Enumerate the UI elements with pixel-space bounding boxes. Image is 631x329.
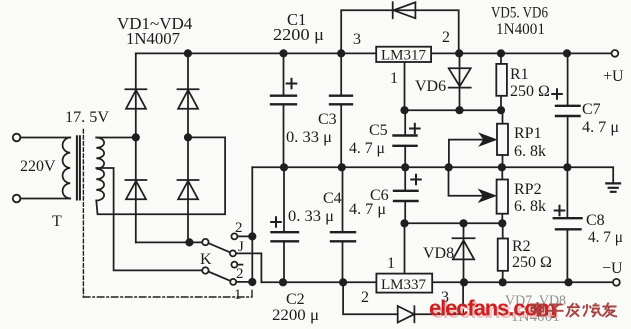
- diode VD3 (lower left): [125, 180, 146, 199]
- svg-text:2: 2: [235, 220, 243, 236]
- op-amp regulator U1 LM317: [376, 47, 431, 62]
- svg-text:250 Ω: 250 Ω: [512, 254, 552, 271]
- svg-text:1N4007: 1N4007: [126, 29, 180, 48]
- wire secondary top to bridge: [96, 137, 136, 139]
- resistor R2: [502, 223, 504, 282]
- svg-text:+U: +U: [603, 68, 624, 85]
- capacitor C3: [340, 53, 342, 167]
- switch K pole 2 common: [202, 267, 208, 273]
- svg-text:R1: R1: [510, 66, 529, 83]
- svg-text:VD8: VD8: [423, 245, 454, 262]
- wire contact2 to mid-rail line: [237, 235, 252, 237]
- wire contact 1 to node: [236, 281, 252, 283]
- svg-text:C5: C5: [369, 122, 388, 139]
- svg-text:2: 2: [361, 289, 369, 306]
- resistor R1: [500, 53, 502, 110]
- node mid rail wipers: [445, 163, 453, 171]
- svg-text:220V: 220V: [20, 158, 56, 175]
- svg-text:6. 8k: 6. 8k: [514, 198, 546, 215]
- wire LM317 pin1: [404, 62, 406, 110]
- node adjust rail VD6: [455, 106, 463, 114]
- svg-text:K: K: [200, 251, 212, 268]
- wire VD7 branch: [343, 282, 463, 314]
- svg-text:2: 2: [442, 29, 450, 46]
- op-amp regulator U2 LM337: [376, 274, 432, 293]
- node mid rail C3: [338, 163, 346, 171]
- svg-text:250 Ω: 250 Ω: [510, 83, 550, 100]
- node top rail C7: [563, 49, 571, 57]
- diode VD6: [449, 53, 471, 110]
- diode VD8: [453, 223, 475, 282]
- wire bridge right column: [187, 53, 189, 242]
- svg-text:1N4001: 1N4001: [496, 21, 545, 38]
- node lower adjust C6: [400, 219, 408, 227]
- switch K pole 1 contact 1: [230, 250, 236, 256]
- switch K pole 1 contact 2: [231, 233, 237, 239]
- svg-text:LM317: LM317: [381, 48, 427, 64]
- node mid rail RP1: [498, 163, 506, 171]
- watermark chinese characters: [532, 302, 618, 317]
- node bottom rail C4/VD7: [339, 278, 347, 286]
- transformer T primary terminal bottom: [13, 195, 21, 203]
- diode VD4 (lower right): [178, 180, 199, 199]
- svg-text:2200 μ: 2200 μ: [273, 25, 324, 44]
- wire secondary bottom to right bridge column: [96, 137, 225, 214]
- svg-text:C4: C4: [323, 190, 342, 207]
- diode VD1 (upper left): [125, 89, 146, 109]
- svg-text:2: 2: [236, 266, 244, 282]
- node top rail bridge: [184, 49, 192, 57]
- wire top rail right of LM317: [431, 52, 611, 54]
- node top rail R1: [497, 49, 505, 57]
- svg-text:C3: C3: [318, 111, 337, 128]
- capacitor C8: [566, 167, 568, 282]
- wire contact 2 stub: [237, 264, 242, 266]
- node top rail C3/VD5: [337, 49, 345, 57]
- wire contact1 to bottom rail: [236, 253, 262, 282]
- diode VD2 (upper right): [178, 89, 199, 109]
- terminal +U: [612, 50, 619, 57]
- node bottom rail C2: [279, 278, 287, 286]
- svg-text:6. 8k: 6. 8k: [514, 143, 546, 160]
- shield dashed line: [82, 130, 84, 291]
- wire LM337 pin1: [404, 223, 406, 273]
- node mid rail C1: [280, 163, 288, 171]
- transformer T primary winding: [63, 138, 71, 199]
- diode VD5: [393, 2, 416, 18]
- svg-text:1: 1: [234, 287, 242, 303]
- node bottom rail VD8/VD7: [460, 278, 468, 286]
- capacitor C5: [404, 110, 406, 167]
- svg-text:4. 7 μ: 4. 7 μ: [582, 119, 619, 136]
- node AC left: [132, 133, 140, 141]
- ground: [612, 167, 614, 183]
- node adjust rail R1: [497, 106, 505, 114]
- svg-text:4. 7 μ: 4. 7 μ: [588, 229, 623, 246]
- switch K pole 2 contact 2: [231, 262, 237, 268]
- transformer T secondary winding: [96, 138, 104, 201]
- wire secondary center tap: [96, 168, 202, 270]
- switch K pole 2 lever: [209, 272, 231, 281]
- svg-text:4. 7 μ: 4. 7 μ: [349, 201, 386, 218]
- node top rail C1: [279, 49, 287, 57]
- wire adjust rail lower: [405, 222, 503, 224]
- wire mid rail to switch contacts: [251, 167, 253, 282]
- switch K pole 1 common: [202, 239, 208, 245]
- svg-text:17. 5V: 17. 5V: [65, 109, 109, 126]
- svg-text:C8: C8: [586, 212, 605, 229]
- wire bridge bottom to switch: [136, 241, 202, 243]
- transformer T core: [77, 136, 80, 199]
- svg-text:1: 1: [390, 70, 398, 87]
- wire top rail left of LM317: [136, 52, 376, 54]
- node switch contact2 upper: [248, 232, 256, 240]
- svg-text:LM337: LM337: [381, 277, 427, 293]
- svg-text:4. 7 μ: 4. 7 μ: [349, 140, 385, 157]
- svg-text:3: 3: [353, 31, 361, 48]
- svg-text:0. 33 μ: 0. 33 μ: [288, 208, 334, 225]
- svg-text:1: 1: [387, 255, 395, 272]
- terminal -U: [613, 279, 620, 286]
- svg-text:VD6: VD6: [415, 78, 446, 95]
- capacitor C7: [567, 53, 569, 167]
- diode VD7: [398, 306, 415, 323]
- svg-text:J: J: [238, 239, 244, 255]
- potentiometer RP2: [501, 167, 503, 223]
- node bridge bottom: [185, 238, 193, 246]
- node switch contact1 lower: [248, 278, 256, 286]
- svg-text:VD5. VD6: VD5. VD6: [491, 5, 548, 22]
- node lower adjust RP2: [498, 219, 506, 227]
- wire bridge left column: [135, 53, 137, 242]
- svg-text:R2: R2: [512, 238, 531, 255]
- node bottom rail C8: [564, 278, 572, 286]
- svg-text:T: T: [52, 213, 62, 230]
- transformer T primary terminal top: [13, 134, 21, 142]
- node top rail pin2: [455, 49, 463, 57]
- node mid rail C5: [401, 163, 409, 171]
- capacitor C6: [404, 167, 406, 223]
- switch K pole 1 lever: [209, 243, 231, 252]
- wire bottom rail right of LM337: [432, 281, 613, 283]
- svg-text:0. 33 μ: 0. 33 μ: [286, 129, 332, 146]
- svg-text:−U: −U: [602, 260, 623, 277]
- node bottom rail R2: [499, 278, 507, 286]
- wire mid rail: [252, 166, 613, 168]
- capacitor C2: [283, 167, 285, 282]
- wire VD5 branch: [341, 10, 459, 53]
- svg-text:2200 μ: 2200 μ: [272, 307, 319, 324]
- svg-text:C2: C2: [286, 291, 305, 308]
- wire primary bottom lead: [20, 198, 70, 200]
- wire adjust rail upper: [405, 109, 502, 111]
- svg-text:C7: C7: [582, 101, 601, 118]
- switch K pole 2 contact 1: [230, 279, 236, 285]
- node lower adjust VD8: [459, 219, 467, 227]
- node AC right: [184, 133, 192, 141]
- svg-text:RP1: RP1: [514, 125, 542, 142]
- wire bottom rail left of LM337: [261, 281, 376, 283]
- node mid rail C8: [563, 163, 571, 171]
- potentiometer RP1: [502, 110, 504, 167]
- capacitor C1: [283, 53, 285, 167]
- node adjust rail pin1: [400, 106, 408, 114]
- svg-text:RP2: RP2: [514, 181, 542, 198]
- wire primary top lead: [20, 137, 70, 139]
- capacitor C4: [342, 167, 344, 282]
